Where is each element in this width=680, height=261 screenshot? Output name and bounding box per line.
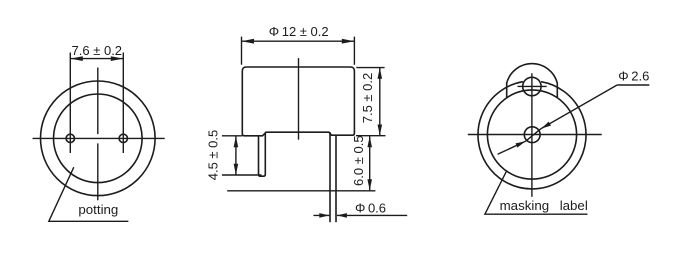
svg-text:label: label [560,198,588,213]
extension line right (7.6 dim) [122,53,124,154]
leader line to masking label [485,170,588,214]
pin 2 (right terminal) [119,134,127,142]
Φ2.6 leader diagonal upper [541,85,617,129]
Φ2.6 leader underline [617,84,649,86]
arrowhead top 7.5 [378,68,383,79]
Φ0.6 left arrow line [313,214,329,216]
buzzer body outline [242,67,354,136]
svg-text:Φ 0.6: Φ 0.6 [355,200,386,215]
outer circle body [41,81,156,196]
pcb baseline [227,190,375,192]
Φ2.6 leader through-hole segment [526,129,542,142]
tab hole horizontal centerline [518,85,547,87]
vertical centerline [531,73,533,197]
tab hole small circle [523,77,541,95]
label tab bump arc [507,64,558,83]
Φ0.6 right arrow line [337,214,407,216]
right pin right edge / Φ0.6 extension [335,135,337,222]
horizontal centerline [33,137,165,139]
tab notch left [506,83,508,98]
arrowhead bottom 7.5 [378,125,383,136]
inner circle [487,90,576,179]
outer circle body (arc, gap at tab hole) [478,82,586,189]
arrowhead bottom 6.0 [367,179,372,190]
left pin (side view) [259,132,266,176]
arrowhead left Φ0.6 [319,213,329,218]
arrowhead lower Φ2.6 [516,141,526,147]
pin 1 (left terminal) [66,134,74,142]
right pin left edge / Φ0.6 extension [329,132,331,222]
extension line top (4.5 dim) [222,135,242,137]
arrowhead left 7.6 [70,56,83,61]
leader line to potting [49,167,129,221]
extension line right (Φ12) [353,37,355,65]
extension line left (Φ12) [241,37,243,65]
svg-text:6.0 ± 0.5: 6.0 ± 0.5 [351,135,366,186]
arrowhead right Φ12 [342,39,355,44]
dimension line Φ12 [242,40,355,42]
arrowhead top 6.0 [367,136,372,147]
extension line mid shared (7.5/6.0 dims) [356,135,386,137]
dimension line 6.0 [369,136,371,190]
arrowhead upper Φ2.6 [541,122,551,129]
Φ2.6 leader diagonal lower [498,141,526,154]
svg-text:4.5 ± 0.5: 4.5 ± 0.5 [206,130,221,181]
vertical centerline lower segment [97,143,99,200]
dimension line 7.5 [379,68,381,136]
inner circle (potting area) [54,94,143,183]
extension line left (7.6 dim) [69,53,71,154]
svg-text:Φ 2.6: Φ 2.6 [618,68,649,83]
arrowhead right Φ0.6 [337,213,347,218]
svg-text:7.5 ± 0.2: 7.5 ± 0.2 [360,73,375,124]
svg-text:potting: potting [78,202,118,217]
arrowhead bottom 4.5 [234,164,239,175]
dimension line 7.6 [70,58,123,60]
body vertical centerline [298,58,300,140]
arrowhead top 4.5 [234,136,239,147]
svg-text:Φ 12 ± 0.2: Φ 12 ± 0.2 [269,24,329,39]
horizontal centerline [468,134,602,136]
svg-text:masking: masking [500,198,550,213]
vertical centerline upper segment [97,68,99,135]
center hole Φ2.6 [524,127,540,143]
extension line top (7.5 dim) [356,67,384,69]
arrowhead left Φ12 [242,39,255,44]
svg-text:7.6 ± 0.2: 7.6 ± 0.2 [72,43,123,58]
arrowhead right 7.6 [111,56,124,61]
extension line bottom (4.5 dim) [222,174,262,176]
tab notch right [556,83,558,98]
dimension line 4.5 [235,136,237,175]
